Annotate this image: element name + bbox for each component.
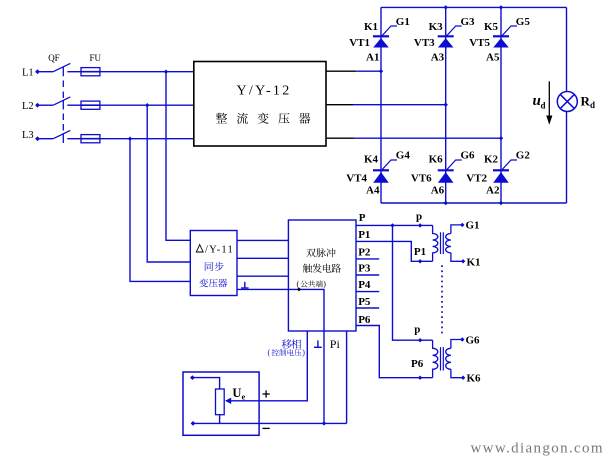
wire load branch — [566, 7, 568, 91]
wire secondary to K1 — [451, 253, 462, 261]
svg-text:K4: K4 — [364, 154, 379, 166]
svg-text:P1: P1 — [414, 246, 426, 258]
label 移相 — [282, 339, 292, 349]
svg-text:Y/Y-12: Y/Y-12 — [237, 83, 292, 98]
svg-text:P6: P6 — [411, 358, 424, 370]
svg-text:P3: P3 — [358, 263, 371, 275]
pulse transformer core — [440, 232, 442, 254]
fuse FU2 — [81, 101, 100, 109]
wire P common — [356, 224, 433, 226]
wire secondary to K6 — [451, 369, 462, 377]
svg-text:L1: L1 — [22, 67, 34, 78]
thyristor VT3 — [438, 35, 454, 37]
node phase 3 to bridge — [499, 136, 503, 140]
svg-text:P5: P5 — [358, 296, 371, 308]
svg-text:/Y-11: /Y-11 — [205, 245, 234, 256]
wire L1 to switch — [38, 71, 54, 73]
wire L2 to switch — [38, 104, 54, 106]
svg-text:P2: P2 — [358, 247, 371, 259]
svg-text:G2: G2 — [516, 150, 531, 162]
wire tap L3 to sync transformer — [130, 139, 190, 282]
label 同步 — [205, 262, 213, 271]
svg-text:): ) — [323, 280, 326, 289]
wire to potentiometer top — [192, 378, 219, 389]
node common terminal — [297, 287, 301, 291]
svg-text:VT5: VT5 — [469, 37, 490, 49]
svg-text:G5: G5 — [516, 16, 531, 28]
svg-text:VT6: VT6 — [411, 173, 432, 185]
svg-text:K1: K1 — [364, 21, 378, 33]
ground symbol near sync box — [241, 287, 249, 289]
pulse transformer primary winding — [433, 340, 438, 378]
svg-text:P4: P4 — [358, 279, 371, 291]
potentiometer RP — [216, 389, 225, 415]
label minus — [263, 427, 270, 429]
svg-text:VT2: VT2 — [466, 173, 487, 185]
pulse transformer secondary winding — [446, 234, 451, 253]
wire transformer secondary 2 — [326, 104, 353, 106]
pulse transformer primary winding — [433, 225, 438, 261]
label 变压器 — [199, 278, 208, 287]
wire common line — [237, 289, 324, 423]
svg-text:L3: L3 — [22, 130, 34, 141]
wire tap L2 to sync transformer — [147, 105, 190, 262]
wire switch to fuse L2 — [67, 104, 81, 106]
wire P4 stub — [356, 291, 379, 293]
wire bridge column — [500, 7, 502, 203]
node tap L2 — [145, 103, 149, 107]
wire bottom line to ground and Pi — [193, 422, 347, 424]
wire L3 to switch — [38, 138, 54, 140]
svg-text:): ) — [302, 348, 305, 357]
svg-text:G6: G6 — [461, 150, 476, 162]
switch QF pole 1 blade — [53, 63, 70, 71]
switch QF pole 3 blade — [53, 130, 70, 138]
svg-text:A3: A3 — [431, 51, 445, 63]
wire potentiometer bottom — [219, 415, 221, 424]
wire fuse L3 to transformer — [100, 138, 194, 140]
gate G3 lead — [446, 26, 462, 36]
thyristor VT1 — [373, 35, 389, 37]
node phase 1 to bridge — [379, 69, 383, 73]
switch QF linkage dashed line — [62, 67, 64, 77]
thyristor VT4 — [373, 169, 389, 171]
wire switch to fuse L1 — [67, 71, 81, 73]
wire bridge column — [445, 7, 447, 203]
svg-text:A6: A6 — [431, 185, 445, 197]
svg-text:VT4: VT4 — [346, 173, 367, 185]
node bottom bus junctions — [444, 201, 448, 205]
svg-text:K6: K6 — [429, 154, 444, 166]
wire P6 — [356, 326, 433, 378]
wire transformer secondary 3 — [326, 137, 354, 139]
svg-text:P: P — [359, 212, 366, 224]
label 触发电路 — [303, 264, 312, 273]
wire transformer secondary 1 — [326, 70, 356, 72]
wire fuse L1 to transformer — [100, 71, 194, 73]
svg-text:L2: L2 — [22, 101, 34, 112]
label 整流变压器 — [216, 113, 227, 124]
svg-text:P1: P1 — [358, 229, 370, 241]
gate G4 lead — [382, 160, 398, 170]
wire sync output — [237, 275, 288, 277]
thyristor VT2 — [493, 169, 509, 171]
wire P common to pulse transformer 2 — [393, 225, 433, 340]
svg-text:P6: P6 — [358, 314, 371, 326]
wire bottom bus — [381, 202, 567, 204]
svg-text:(: ( — [297, 280, 300, 289]
svg-text:A2: A2 — [486, 185, 500, 197]
svg-text:p: p — [416, 211, 422, 223]
gate G1 lead — [382, 26, 398, 36]
wire P3 stub — [356, 274, 379, 276]
svg-text:G4: G4 — [396, 150, 411, 162]
svg-text:A5: A5 — [486, 51, 500, 63]
svg-text:A4: A4 — [366, 185, 380, 197]
thyristor VT5 — [493, 35, 509, 37]
svg-text:U: U — [232, 386, 241, 400]
svg-text:Pi: Pi — [330, 337, 341, 351]
node tap L1 — [164, 70, 168, 74]
wire switch to fuse L3 — [67, 138, 81, 140]
node supply - — [191, 421, 196, 426]
svg-text:K2: K2 — [484, 154, 499, 166]
fuse FU1 — [81, 68, 100, 76]
svg-text:G1: G1 — [466, 220, 480, 232]
svg-text:e: e — [242, 391, 246, 401]
wire P5 stub — [356, 307, 379, 309]
wire P2 stub — [356, 258, 379, 260]
wire Pi terminal — [346, 331, 348, 423]
svg-text:FU: FU — [90, 53, 102, 63]
svg-text:VT3: VT3 — [414, 37, 435, 49]
transformer T2 sync box — [190, 231, 237, 296]
wire tap L1 to sync transformer — [166, 72, 190, 241]
svg-text:VT1: VT1 — [349, 37, 370, 49]
node phase 2 to bridge — [444, 103, 448, 107]
label triangle/Y-11 — [196, 245, 203, 252]
load lamp Rd — [557, 92, 577, 112]
arrow ud direction — [548, 81, 550, 120]
svg-text:QF: QF — [48, 53, 60, 63]
svg-text:R: R — [581, 94, 591, 109]
wire secondary to G1 — [451, 225, 462, 234]
wire shift-phase terminal — [226, 331, 307, 401]
pulse transformer core — [440, 347, 442, 370]
svg-text:K6: K6 — [467, 373, 482, 385]
arrow potentiometer wiper — [225, 398, 231, 404]
svg-text:G6: G6 — [466, 334, 481, 346]
wire secondary to G6 — [451, 340, 462, 349]
trigger circuit box U1 — [288, 220, 356, 331]
label 双脉冲 — [306, 249, 315, 258]
wire sync output — [237, 257, 288, 259]
control voltage source box — [183, 372, 259, 435]
gate G5 lead — [502, 26, 518, 36]
svg-text:A1: A1 — [366, 51, 379, 63]
svg-text:G3: G3 — [461, 16, 476, 28]
svg-text:K1: K1 — [467, 256, 481, 268]
svg-text:G1: G1 — [396, 16, 410, 28]
svg-text:www.diangon.com: www.diangon.com — [471, 441, 604, 457]
node supply + — [190, 375, 195, 380]
fuse FU3 — [81, 135, 100, 143]
node tap L3 — [128, 137, 132, 141]
ground symbol below trigger box — [314, 346, 322, 348]
wire sync output — [237, 239, 288, 241]
wire fuse L2 to transformer — [100, 104, 194, 106]
svg-text:d: d — [541, 101, 546, 111]
svg-text:K3: K3 — [429, 21, 444, 33]
svg-text:d: d — [590, 100, 595, 110]
gate G2 lead — [502, 160, 518, 170]
label plus — [263, 393, 270, 395]
thyristor VT6 — [438, 169, 454, 171]
switch QF pole 2 blade — [53, 97, 70, 105]
wire top bus — [381, 6, 567, 8]
svg-text:p: p — [414, 324, 420, 336]
svg-text:(: ( — [268, 348, 271, 357]
gate G6 lead — [446, 160, 462, 170]
node top bus junctions — [444, 5, 448, 9]
wire P1 — [356, 241, 433, 261]
pulse transformer secondary winding — [446, 348, 451, 369]
svg-text:K5: K5 — [484, 21, 499, 33]
wire bridge column — [380, 7, 382, 203]
transformer T1 Y/Y-12 rectifier transformer box — [194, 62, 326, 147]
dotted line between pulse transformers — [441, 265, 443, 333]
